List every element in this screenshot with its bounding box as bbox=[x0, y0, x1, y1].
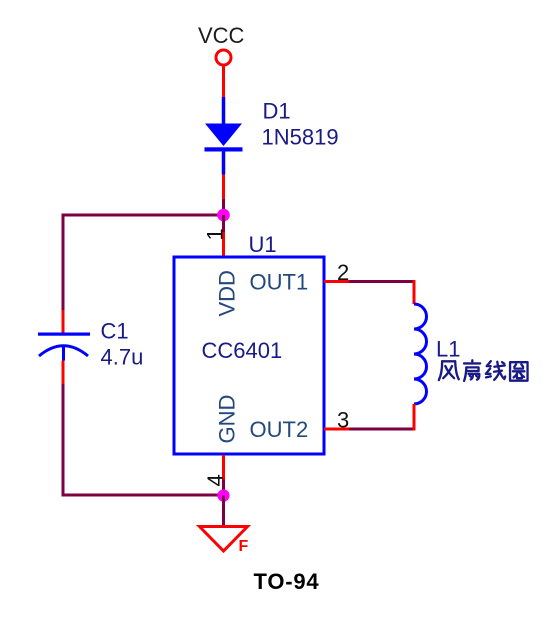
svg-text:VDD: VDD bbox=[215, 270, 240, 316]
pin 2 lead (red) bbox=[324, 280, 349, 283]
svg-text:TO-94: TO-94 bbox=[254, 569, 320, 594]
wire VCC to D1 anode bbox=[222, 67, 225, 98]
svg-text:4.7u: 4.7u bbox=[101, 345, 144, 370]
wire left vertical (C1 branch lower) bbox=[62, 384, 65, 497]
svg-text:D1: D1 bbox=[263, 99, 291, 124]
wire pin4 to node (maroon) bbox=[222, 480, 225, 496]
wire D1 cathode to node (red pin lead) bbox=[222, 175, 225, 200]
char 圈 bbox=[510, 362, 527, 381]
pin 4 lead (red) bbox=[222, 455, 225, 480]
wire corner to L1 top (red) bbox=[413, 280, 416, 283]
char 扇 bbox=[464, 360, 480, 381]
inductor L1 bbox=[414, 304, 427, 404]
wire node to U1 pin1 (maroon) bbox=[222, 215, 225, 232]
svg-text:C1: C1 bbox=[101, 319, 129, 344]
junction node top bbox=[217, 209, 230, 222]
value 风扇线圈 (drawn glyphs) bbox=[439, 360, 528, 381]
svg-text:1: 1 bbox=[203, 228, 228, 240]
capacitor C1 bbox=[38, 333, 90, 361]
svg-text:OUT1: OUT1 bbox=[250, 270, 309, 295]
svg-text:2: 2 bbox=[337, 260, 349, 285]
wire bottom horizontal to node bbox=[62, 494, 226, 497]
svg-text:CC6401: CC6401 bbox=[202, 338, 283, 363]
svg-text:L1: L1 bbox=[436, 337, 460, 362]
wire left vertical (C1 branch upper) bbox=[62, 214, 65, 311]
wire L1 to pin3 (maroon) bbox=[349, 428, 413, 431]
wire node to ground bbox=[222, 496, 225, 526]
svg-text:1N5819: 1N5819 bbox=[262, 125, 339, 150]
wire node to C1 top (horizontal) bbox=[62, 214, 226, 217]
power port VCC terminal circle bbox=[216, 50, 231, 65]
wire D1 cathode to node (maroon) bbox=[222, 199, 225, 217]
char 风 bbox=[439, 361, 459, 380]
ground symbol F bbox=[200, 527, 248, 552]
capacitor C1 lead top (red) bbox=[62, 310, 65, 333]
svg-text:F: F bbox=[239, 538, 249, 555]
diode D1 bbox=[205, 97, 243, 175]
char 线 bbox=[486, 361, 505, 380]
pin 3 lead (red) bbox=[324, 428, 349, 431]
L1 bottom lead (red) bbox=[413, 404, 416, 431]
svg-text:U1: U1 bbox=[249, 232, 277, 257]
junction node bottom bbox=[217, 489, 229, 501]
capacitor C1 lead bottom (red) bbox=[62, 361, 65, 385]
svg-text:OUT2: OUT2 bbox=[250, 417, 309, 442]
svg-text:VCC: VCC bbox=[198, 23, 245, 48]
IC U1 body bbox=[174, 257, 324, 454]
svg-text:3: 3 bbox=[337, 408, 349, 433]
pin 1 lead (red) bbox=[222, 232, 225, 256]
svg-text:GND: GND bbox=[215, 395, 240, 444]
wire pin2 to L1 (maroon) bbox=[349, 280, 413, 283]
